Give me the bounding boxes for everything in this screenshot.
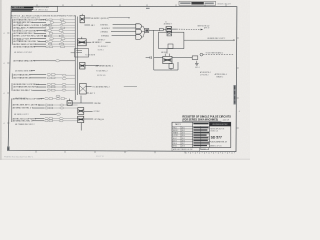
label KEYB 3 <box>100 30 108 33</box>
svg-text:APPROX REL 4: APPROX REL 4 <box>215 73 227 76</box>
svg-text:TO 4B XMTR: TO 4B XMTR <box>85 54 96 56</box>
svg-text:E.H. CHK B.T. 4B-2: E.H. CHK B.T. 4B-2 <box>35 10 48 12</box>
coil L1 <box>40 60 75 62</box>
relay U5 <box>67 99 72 106</box>
svg-text:LOOP 1: LOOP 1 <box>173 135 179 137</box>
wire U5 out <box>72 102 93 104</box>
title heading <box>182 116 231 122</box>
svg-text:ISSUED 4-41: ISSUED 4-41 <box>210 131 218 133</box>
sheet frame <box>3 4 238 153</box>
svg-text:SD-577 S1: SD-577 S1 <box>96 156 104 158</box>
relay U6 <box>78 108 84 115</box>
label U1 out 1 <box>91 18 109 20</box>
svg-text:4B SEND REC REL 1 T: 4B SEND REC REL 1 T <box>12 121 34 123</box>
svg-text:4B1 TRANS REC 1: 4B1 TRANS REC 1 <box>13 73 31 76</box>
svg-text:4B TRANS REC KEY 2: 4B TRANS REC KEY 2 <box>15 123 35 126</box>
gate G1 <box>136 24 142 29</box>
label spare B0 <box>14 52 33 54</box>
svg-text:WESTERN ELECTRIC: WESTERN ELECTRIC <box>212 124 228 126</box>
footer note <box>4 155 33 158</box>
relay U3 <box>80 62 85 69</box>
wire input D5 <box>12 118 44 120</box>
wire K1 out <box>172 28 203 30</box>
wire PR1 out <box>184 39 234 41</box>
svg-text:4B REC LOOP SIG REL 2 (NOTE 3): 4B REC LOOP SIG REL 2 (NOTE 3) <box>13 36 46 38</box>
corner mark <box>7 146 10 151</box>
contact chain B <box>47 74 75 80</box>
svg-text:4B REC T: 4B REC T <box>98 39 106 41</box>
svg-text:4B 2: 4B 2 <box>182 130 185 132</box>
wire U1 ext <box>109 17 130 18</box>
svg-text:4B 7: 4B 7 <box>182 143 185 145</box>
svg-text:OP 2M(-) A: OP 2M(-) A <box>94 118 104 121</box>
label aux 1 <box>96 71 108 73</box>
svg-text:TO 4B SIG 2: TO 4B SIG 2 <box>98 46 108 48</box>
wire input B3 <box>13 73 46 76</box>
label U4 out 2 <box>90 93 95 95</box>
contact CT1 <box>146 56 152 59</box>
node bracket B <box>11 74 13 79</box>
svg-text:(NOTE 6): (NOTE 6) <box>17 29 23 31</box>
svg-text:4B REC BRK KEY 1 (NOTE 6): 4B REC BRK KEY 1 (NOTE 6) <box>12 105 40 107</box>
svg-text:FLEXOWRITER 4T: FLEXOWRITER 4T <box>210 142 228 144</box>
svg-text:4B XMTR 1 (NOTE 3): 4B XMTR 1 (NOTE 3) <box>91 18 109 20</box>
label U1 out 2 <box>91 25 95 27</box>
approval strip <box>172 148 209 152</box>
svg-text:REL 4: REL 4 <box>173 143 177 145</box>
drawing number strip <box>179 1 231 5</box>
wire bus 1 <box>74 16 76 101</box>
svg-text:B KEYB 2: B KEYB 2 <box>102 28 110 30</box>
wire K2 out <box>172 57 192 59</box>
wire input A11 <box>13 46 46 49</box>
svg-text:NOTE 105: NOTE 105 <box>97 75 106 77</box>
svg-text:4-12-41: 4-12-41 <box>201 148 206 150</box>
wire input A6 <box>13 32 46 35</box>
svg-text:PRINTED IN U.S.A. 4B-577-: PRINTED IN U.S.A. 4B-577-S1 REV 2 <box>4 155 33 158</box>
label zone right <box>239 111 240 113</box>
label K2 <box>161 52 168 54</box>
svg-text:NOTE 101 - ALL RELAY CONTACTS: NOTE 101 - ALL RELAY CONTACTS SHOWN IN U… <box>11 15 76 18</box>
svg-text:TO 4B TEST BOARD 2: TO 4B TEST BOARD 2 <box>206 52 224 55</box>
svg-text:4-41 LH: 4-41 LH <box>223 120 230 122</box>
contact chain D2 <box>45 104 78 109</box>
svg-text:OP REC: OP REC <box>93 111 100 113</box>
svg-text:4B REC SIG REL T 1: 4B REC SIG REL T 1 <box>13 90 33 92</box>
label U7 out <box>94 118 104 121</box>
contact CB1 <box>160 28 164 30</box>
label aux 2 <box>97 75 106 77</box>
wire K2 left <box>154 57 163 59</box>
ground <box>195 61 199 66</box>
wire loop right <box>177 62 179 70</box>
svg-text:GRD 4: GRD 4 <box>195 67 200 69</box>
title table <box>172 122 231 147</box>
svg-text:4B TRANS BRK SIG KEY 2: 4B TRANS BRK SIG KEY 2 <box>13 86 38 89</box>
wire input C2 <box>13 86 46 89</box>
label ground <box>195 67 200 69</box>
svg-text:4B 2: 4B 2 <box>91 25 95 27</box>
svg-text:4B SEND BRK REL: 4B SEND BRK REL <box>15 70 34 72</box>
wire U1 out 2 <box>84 24 90 26</box>
svg-text:B KEYB 1: B KEYB 1 <box>100 24 108 26</box>
svg-text:4B SEND LOOP SIG REL 1: 4B SEND LOOP SIG REL 1 <box>13 30 39 32</box>
svg-text:4B 5: 4B 5 <box>182 138 185 140</box>
svg-text:4B SEND 2: 4B SEND 2 <box>92 42 102 44</box>
svg-text:AB SERIES A REL 1: AB SERIES A REL 1 <box>96 65 113 68</box>
svg-text:4B TRANS SEND KEY 1: 4B TRANS SEND KEY 1 <box>13 60 36 63</box>
contact chain D3 <box>45 118 78 122</box>
wire D4 <box>14 114 56 116</box>
wire bus 3a <box>80 96 82 104</box>
contact chain D1 <box>45 95 68 99</box>
label note 102 <box>198 25 210 29</box>
svg-text:4B SEND T: 4B SEND T <box>164 24 172 26</box>
wire U4 out 2 <box>86 92 89 94</box>
wire K1 down <box>166 49 168 54</box>
svg-text:2M 2M /: 2M 2M / <box>94 103 101 105</box>
node bracket C <box>11 83 13 91</box>
wire input D1 <box>12 98 44 100</box>
svg-text:KEY T: KEY T <box>173 140 177 142</box>
footer note 2 <box>96 156 104 158</box>
wire input A5 <box>13 30 46 32</box>
label aux 0 <box>85 54 96 56</box>
wire U2 out <box>86 41 110 43</box>
wire N1 out <box>203 54 233 56</box>
wire loop bottom <box>154 69 178 71</box>
svg-text:4 WVB A: 4 WVB A <box>100 30 108 33</box>
wire KEYB 2 <box>113 27 136 29</box>
svg-text:REGISTER OF SINGLE PULSE CIRCU: REGISTER OF SINGLE PULSE CIRCUITS <box>182 116 231 119</box>
contact chain C <box>47 83 75 91</box>
svg-text:REC 1: REC 1 <box>173 128 178 130</box>
wire KEYB 3 <box>111 31 136 33</box>
wire input A9 <box>13 40 46 43</box>
label U2 aux <box>98 39 108 51</box>
sublabel A4 <box>17 29 23 31</box>
wire input D6 <box>12 121 44 123</box>
label spare C <box>15 98 28 100</box>
wire loop left <box>153 58 155 70</box>
label U4 out 1 <box>92 87 109 89</box>
svg-text:4B REC SEND SIG LOOP REL 2: 4B REC SEND SIG LOOP REL 2 <box>12 98 42 100</box>
wire input A10 <box>13 44 46 46</box>
svg-text:4 P NOTE 2: 4 P NOTE 2 <box>200 75 209 77</box>
capacitor C1 <box>71 49 89 57</box>
svg-text:B WVB A: B WVB A <box>101 34 109 37</box>
svg-text:(NOTE 4): (NOTE 4) <box>17 23 23 25</box>
wire input C3 <box>13 90 46 92</box>
wire input A2 <box>13 22 46 24</box>
wire input B1 <box>13 60 40 63</box>
relay U2 <box>78 37 87 46</box>
svg-text:4B 1: 4B 1 <box>182 128 185 130</box>
sublabel A8 <box>17 39 23 41</box>
node arrow <box>201 29 203 31</box>
svg-text:SD 577: SD 577 <box>211 136 222 140</box>
note caption <box>11 15 76 20</box>
polar relay frame PR1 <box>159 32 184 48</box>
node bracket D <box>11 98 13 122</box>
label U6 out <box>93 111 100 113</box>
svg-text:4B REC: 4B REC <box>161 52 168 54</box>
svg-text:4B SEND REC LOOP 2: 4B SEND REC LOOP 2 <box>207 38 225 40</box>
wire U7 out <box>84 118 93 120</box>
svg-text:(NOTE 7): (NOTE 7) <box>17 39 23 41</box>
label loop note <box>200 71 227 79</box>
node bracket A <box>11 19 13 32</box>
svg-text:NOTE 4: NOTE 4 <box>98 49 104 51</box>
svg-text:4B T 2: 4B T 2 <box>90 93 95 95</box>
svg-text:4B2 TRANS REC 2: 4B2 TRANS REC 2 <box>13 77 31 80</box>
wire U6 out <box>84 110 93 112</box>
relay K2 <box>163 54 172 64</box>
label D7 <box>15 123 35 126</box>
wire input C1 <box>13 84 46 86</box>
wire input A3 <box>13 24 50 27</box>
svg-text:TO 4B REC 2: TO 4B REC 2 <box>96 71 108 73</box>
gate G3 <box>136 35 142 40</box>
svg-text:SHEET 1 OF 1 B: SHEET 1 OF 1 B <box>210 145 221 147</box>
relay U7 <box>78 116 84 122</box>
wire U1 out 1 <box>84 17 90 19</box>
wire KEYB 4 <box>112 35 136 37</box>
label U2 out <box>92 42 102 44</box>
wire bus 3b <box>80 123 82 131</box>
label U3 out <box>96 65 113 68</box>
wire bus 2 <box>77 17 79 96</box>
zone mark <box>146 8 150 9</box>
wire U3 out <box>85 65 99 67</box>
label KEYB 2 <box>102 28 110 30</box>
wire input D2 <box>12 105 44 107</box>
svg-text:4B 4: 4B 4 <box>182 135 185 137</box>
label U5 out <box>94 103 101 105</box>
wire input A7 <box>13 36 46 38</box>
node PR1 term <box>233 40 234 41</box>
svg-text:4B SEND SIG REL 2 T: 4B SEND SIG REL 2 T <box>12 108 33 110</box>
svg-text:4B SEND LOOP 2: 4B SEND LOOP 2 <box>14 114 29 116</box>
svg-text:ISSUE 4 SD-577: ISSUE 4 SD-577 <box>218 3 231 5</box>
wire U4 out 1 <box>86 86 91 88</box>
svg-text:TO 4B SEND REC 2: TO 4B SEND REC 2 <box>92 87 109 89</box>
battery B1 <box>169 64 173 70</box>
svg-text:4B SEND LOOP KEY: 4B SEND LOOP KEY <box>14 52 33 54</box>
label KEYB 1 <box>100 24 108 26</box>
wire input A1 <box>13 19 46 22</box>
sublabel A2 <box>17 23 23 25</box>
wire KEYB 1 <box>113 24 136 26</box>
coil L2 <box>56 113 60 115</box>
notes table <box>11 6 57 12</box>
junction JB1 <box>142 26 149 37</box>
svg-text:SIG 2: SIG 2 <box>173 138 177 140</box>
relay U1 <box>80 14 84 23</box>
node N1 <box>200 53 203 56</box>
svg-text:4B TRANS REC SIG LOOP REL 1: 4B TRANS REC SIG LOOP REL 1 <box>13 19 45 22</box>
svg-text:41: 41 <box>165 22 167 24</box>
label K1 <box>164 22 172 26</box>
svg-text:4B 6: 4B 6 <box>182 140 185 142</box>
wire input B4 <box>13 77 46 80</box>
node bracket A2 <box>11 33 13 45</box>
wire JB1 out <box>149 29 160 31</box>
svg-text:PART 1: PART 1 <box>175 123 181 126</box>
revision strip <box>234 85 236 105</box>
svg-text:4B 3: 4B 3 <box>182 133 185 135</box>
scale ruler <box>186 152 234 154</box>
wire input A8 <box>13 38 46 40</box>
wire input A4 <box>13 28 46 30</box>
jack J1 <box>192 56 198 60</box>
svg-text:4B SEND TRANS REL 2: 4B SEND TRANS REL 2 <box>13 46 36 49</box>
wire input B2 <box>15 70 35 72</box>
wire loop feed <box>153 30 155 57</box>
wire U4 ext <box>124 86 137 88</box>
svg-text:SEND 2: SEND 2 <box>173 130 179 132</box>
svg-text:SPARE 2: SPARE 2 <box>216 76 223 79</box>
svg-text:SEE NOTE 102: SEE NOTE 102 <box>198 25 210 27</box>
svg-text:4B REC SEND LP KEY T: 4B REC SEND LP KEY T <box>13 44 36 46</box>
svg-text:4: 4 <box>239 111 240 113</box>
svg-text:4B TRANS BRK REL 2 T: 4B TRANS BRK REL 2 T <box>13 32 36 35</box>
label N1 <box>206 52 224 55</box>
relay U4 <box>80 83 87 94</box>
wire input D3 <box>12 108 44 110</box>
relay K1 <box>163 27 172 32</box>
gate G2 <box>136 29 142 34</box>
label KEYB 4 <box>101 34 109 37</box>
label PR1 out <box>207 38 225 40</box>
relay K1b <box>167 32 172 36</box>
contact chain A <box>44 19 75 48</box>
